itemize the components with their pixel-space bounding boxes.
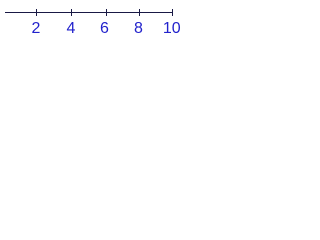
svg-text:4: 4 <box>67 20 76 37</box>
tick 6 <box>106 9 108 16</box>
tick 2 <box>36 9 38 16</box>
svg-text:10: 10 <box>163 20 181 37</box>
tick 4 <box>71 9 73 16</box>
tick 8 <box>139 9 141 16</box>
tick 10 <box>172 9 174 16</box>
number line axis <box>5 12 173 14</box>
svg-text:2: 2 <box>32 20 41 37</box>
svg-text:8: 8 <box>134 20 143 37</box>
svg-text:6: 6 <box>100 20 109 37</box>
